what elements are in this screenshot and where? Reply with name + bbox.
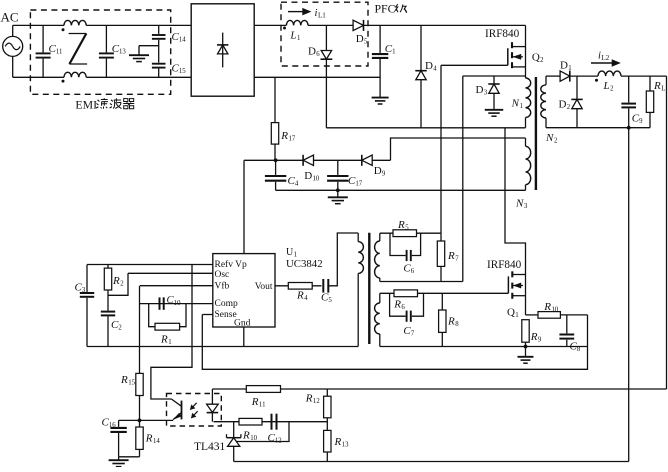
- svg-text:1: 1: [520, 103, 523, 110]
- svg-text:4: 4: [304, 295, 308, 302]
- svg-text:8: 8: [455, 321, 459, 328]
- svg-text:Vout: Vout: [255, 282, 273, 292]
- svg-text:R: R: [530, 331, 538, 343]
- svg-text:14: 14: [153, 438, 160, 445]
- svg-text:IRF840: IRF840: [487, 259, 522, 271]
- svg-text:R: R: [112, 275, 120, 287]
- svg-text:17: 17: [289, 136, 296, 143]
- svg-text:UC3842: UC3842: [286, 258, 323, 270]
- svg-text:7: 7: [455, 256, 459, 263]
- svg-text:9: 9: [538, 337, 542, 344]
- svg-text:D: D: [308, 46, 316, 58]
- svg-text:R: R: [160, 334, 168, 346]
- svg-text:D: D: [304, 170, 312, 182]
- svg-text:R: R: [251, 396, 259, 408]
- svg-text:17: 17: [355, 181, 362, 188]
- svg-text:R: R: [447, 250, 455, 262]
- svg-text:R: R: [653, 80, 661, 92]
- svg-text:2: 2: [567, 104, 571, 111]
- svg-text:13: 13: [119, 49, 126, 56]
- svg-text:Q: Q: [507, 307, 515, 319]
- svg-text:D: D: [356, 33, 364, 45]
- svg-text:TL431: TL431: [194, 441, 226, 453]
- svg-text:R: R: [145, 433, 153, 445]
- svg-text:D: D: [374, 165, 382, 177]
- svg-text:L1: L1: [318, 12, 326, 20]
- svg-text:L: L: [603, 80, 610, 92]
- svg-text:R: R: [296, 290, 304, 302]
- svg-text:R: R: [393, 299, 401, 311]
- svg-text:1: 1: [515, 312, 518, 319]
- svg-text:5: 5: [364, 39, 368, 46]
- svg-text:5: 5: [405, 225, 409, 232]
- svg-text:Osc: Osc: [215, 270, 230, 280]
- svg-text:D: D: [476, 84, 484, 96]
- svg-text:11: 11: [259, 402, 266, 409]
- svg-text:3: 3: [82, 287, 86, 294]
- svg-text:2: 2: [610, 85, 614, 92]
- svg-text:4: 4: [433, 66, 437, 73]
- svg-text:11: 11: [56, 49, 63, 56]
- svg-text:15: 15: [179, 68, 186, 75]
- svg-text:R: R: [242, 430, 250, 442]
- svg-text:2: 2: [120, 281, 124, 288]
- svg-text:Comp: Comp: [215, 299, 238, 309]
- svg-text:2: 2: [118, 325, 122, 332]
- svg-text:R: R: [543, 301, 551, 313]
- svg-text:L: L: [289, 30, 296, 42]
- svg-text:EMI: EMI: [75, 98, 97, 112]
- svg-text:10: 10: [313, 176, 320, 183]
- svg-text:D: D: [425, 60, 433, 72]
- svg-text:9: 9: [382, 171, 386, 178]
- svg-text:1: 1: [168, 339, 171, 346]
- svg-text:1: 1: [392, 49, 395, 56]
- svg-text:D: D: [559, 99, 567, 111]
- svg-text:3: 3: [484, 90, 488, 97]
- svg-text:6: 6: [411, 268, 415, 275]
- svg-text:13: 13: [342, 442, 349, 449]
- svg-text:1: 1: [568, 65, 571, 72]
- svg-text:2: 2: [540, 57, 544, 64]
- svg-text:R: R: [305, 393, 313, 405]
- svg-text:14: 14: [179, 37, 186, 44]
- svg-text:10: 10: [174, 299, 182, 307]
- svg-text:10: 10: [552, 307, 559, 314]
- svg-text:N: N: [511, 98, 520, 110]
- svg-text:IRF840: IRF840: [485, 28, 520, 40]
- svg-text:R: R: [334, 436, 342, 448]
- svg-text:1: 1: [297, 35, 300, 42]
- svg-text:Q: Q: [532, 52, 540, 64]
- svg-text:L2: L2: [601, 54, 609, 62]
- svg-text:12: 12: [313, 398, 320, 405]
- svg-text:6: 6: [401, 304, 405, 311]
- svg-text:15: 15: [128, 380, 135, 387]
- svg-text:Gnd: Gnd: [234, 318, 251, 328]
- svg-text:16: 16: [109, 422, 116, 429]
- svg-text:8: 8: [577, 346, 581, 353]
- svg-text:R: R: [120, 374, 128, 386]
- svg-text:Refv Vp: Refv Vp: [215, 259, 248, 270]
- svg-text:N: N: [545, 132, 554, 144]
- svg-text:D: D: [560, 60, 568, 72]
- svg-text:N: N: [515, 198, 524, 210]
- svg-text:AC: AC: [1, 10, 19, 25]
- svg-text:2: 2: [554, 138, 558, 145]
- svg-text:Vfb: Vfb: [215, 281, 230, 292]
- svg-text:4: 4: [295, 181, 299, 188]
- svg-text:R: R: [397, 219, 405, 231]
- svg-text:R: R: [447, 316, 455, 328]
- svg-text:6: 6: [316, 51, 320, 58]
- svg-text:9: 9: [639, 118, 643, 125]
- svg-text:3: 3: [524, 203, 528, 210]
- svg-text:R: R: [280, 130, 288, 142]
- svg-text:5: 5: [328, 297, 332, 304]
- svg-text:7: 7: [411, 331, 415, 338]
- svg-text:PFC: PFC: [375, 1, 396, 15]
- svg-text:L: L: [661, 86, 665, 93]
